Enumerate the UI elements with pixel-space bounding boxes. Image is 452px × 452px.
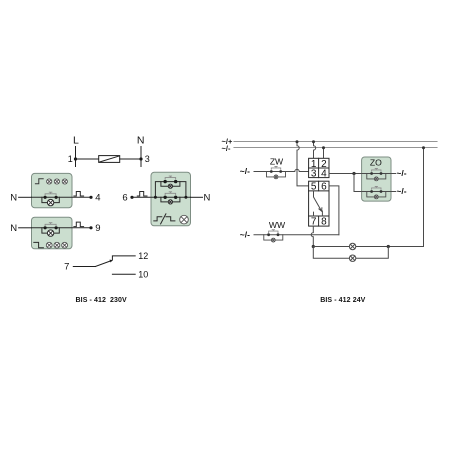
svg-text:~/-: ~/- (396, 168, 406, 178)
pulse symbol row 2 (74, 222, 84, 227)
junction dot on minus bus (322, 146, 325, 149)
pulse symbol row 1 (74, 192, 84, 197)
svg-text:~/-: ~/- (240, 166, 250, 176)
step-down symbol in D2 (34, 242, 44, 247)
node 6 dot (130, 196, 133, 199)
wire through ZO lower (362, 191, 391, 193)
indicator lamp in D3 (180, 215, 189, 224)
wire terminal 4 to ZO (329, 173, 396, 175)
svg-text:ZW: ZW (270, 157, 284, 167)
svg-text:6: 6 (122, 192, 127, 203)
svg-text:N: N (10, 192, 17, 203)
lamp E1 (349, 243, 355, 249)
pulse symbol row 3 (137, 192, 147, 197)
upper branch in D3 (155, 182, 186, 198)
junction dot on plus bus 2 (312, 140, 315, 143)
svg-text:7: 7 (311, 217, 317, 228)
svg-text:10: 10 (138, 270, 148, 280)
bus line plus (234, 141, 437, 143)
svg-text:WW: WW (269, 220, 286, 230)
wire bus+ to terminal 5 (with hop over minus bus) (297, 142, 309, 186)
junction dot lamp return (387, 245, 390, 248)
terminal digits 5-6 (311, 182, 327, 193)
relay switch arm (314, 191, 323, 216)
wire through ZO upper (362, 173, 391, 175)
lamp node dot (312, 245, 315, 248)
dimmer box D2 (green) (32, 217, 73, 249)
switch box D3 (green) (151, 172, 191, 226)
svg-text:12: 12 (138, 251, 148, 261)
terminal 3 (139, 147, 149, 167)
node 4 (89, 193, 100, 204)
svg-text:6: 6 (321, 182, 327, 193)
wire D3 to N (191, 196, 203, 198)
wire through D1 to node 4 (32, 196, 92, 198)
wire lamp row 1 (313, 246, 423, 248)
svg-text:N: N (10, 223, 17, 234)
svg-text:9: 9 (95, 223, 100, 234)
wire through D3 (151, 196, 191, 198)
wire lamp row 2 (313, 247, 388, 259)
svg-text:~/-: ~/- (222, 144, 231, 153)
wire node 7 (73, 266, 95, 268)
bus line minus (234, 147, 437, 149)
junction node ZO feed (352, 172, 355, 175)
svg-text:4: 4 (95, 193, 100, 204)
pushbutton in D2 (42, 223, 59, 237)
wire bus+ to terminal 1 (with hop) (314, 142, 316, 159)
svg-text:ZO: ZO (370, 158, 382, 168)
contact 10 (112, 270, 148, 280)
svg-text:4: 4 (321, 169, 327, 180)
node 9 (89, 223, 100, 234)
wire bus- right drop (423, 148, 425, 247)
wire terminal 6 down (329, 186, 339, 235)
pushbutton ZO lower (367, 187, 386, 199)
junction dot on plus bus (296, 140, 299, 143)
svg-text:~/-: ~/- (240, 229, 250, 239)
svg-text:~/-: ~/- (396, 186, 406, 196)
wire through D2 to node 9 (32, 227, 92, 229)
wire ZO lower branch (354, 174, 396, 192)
svg-text:3: 3 (145, 154, 150, 164)
svg-text:BIS - 412 230V: BIS - 412 230V (76, 297, 128, 304)
pushbutton ZO upper (367, 169, 386, 181)
dimmer box D1 (green) (32, 173, 73, 207)
svg-text:BIS - 412 24V: BIS - 412 24V (320, 297, 365, 304)
wire terminal 7 to lamps (hop over WW wire) (311, 226, 313, 246)
relay terminal grid 1-4 (309, 158, 329, 177)
wire N to box D2 (19, 227, 32, 229)
ZO box (green) (362, 157, 391, 201)
junction dot on minus bus right (422, 146, 425, 149)
wire node6 to box D3 (132, 196, 151, 198)
contact 12 (112, 251, 148, 261)
svg-text:N: N (137, 135, 145, 147)
lamp E2 (349, 255, 355, 261)
cell 5/6 dividers (309, 181, 329, 191)
svg-text:3: 3 (311, 169, 317, 180)
junction dots in D3 (154, 196, 188, 199)
svg-text:8: 8 (321, 217, 327, 228)
step-up symbol in D1 (35, 179, 43, 184)
svg-text:N: N (203, 192, 210, 203)
wire fuse to N (120, 158, 141, 160)
svg-text:7: 7 (64, 261, 69, 272)
svg-text:L: L (73, 135, 79, 147)
wire bus- to terminal 2 (323, 148, 325, 159)
relay body box (309, 181, 329, 226)
pushbutton in D1 (42, 192, 59, 206)
step-up/step-down symbol in D3 (154, 214, 175, 224)
terminal 1 (68, 147, 77, 167)
pushbutton upper in D3 (161, 176, 180, 188)
terminal digits 7-8 (311, 217, 327, 228)
svg-text:1: 1 (68, 154, 73, 164)
pushbutton lower in D3 (161, 192, 180, 204)
pushbutton ZW (267, 167, 286, 179)
indicator lamps in D1 (47, 179, 68, 184)
indicator lamps in D2 (46, 242, 67, 248)
wire ZW to terminal 3 (hop over +drop) (254, 169, 309, 171)
wire N to box D1 (19, 196, 32, 198)
fuse F1 (99, 156, 120, 163)
pushbutton WW (264, 230, 283, 242)
wire WW to node (254, 234, 339, 236)
wire L to fuse (76, 158, 99, 160)
cell 7/8 dividers (309, 216, 329, 226)
terminal digits 1-4 (311, 159, 327, 180)
switch arm S1 (95, 260, 112, 267)
